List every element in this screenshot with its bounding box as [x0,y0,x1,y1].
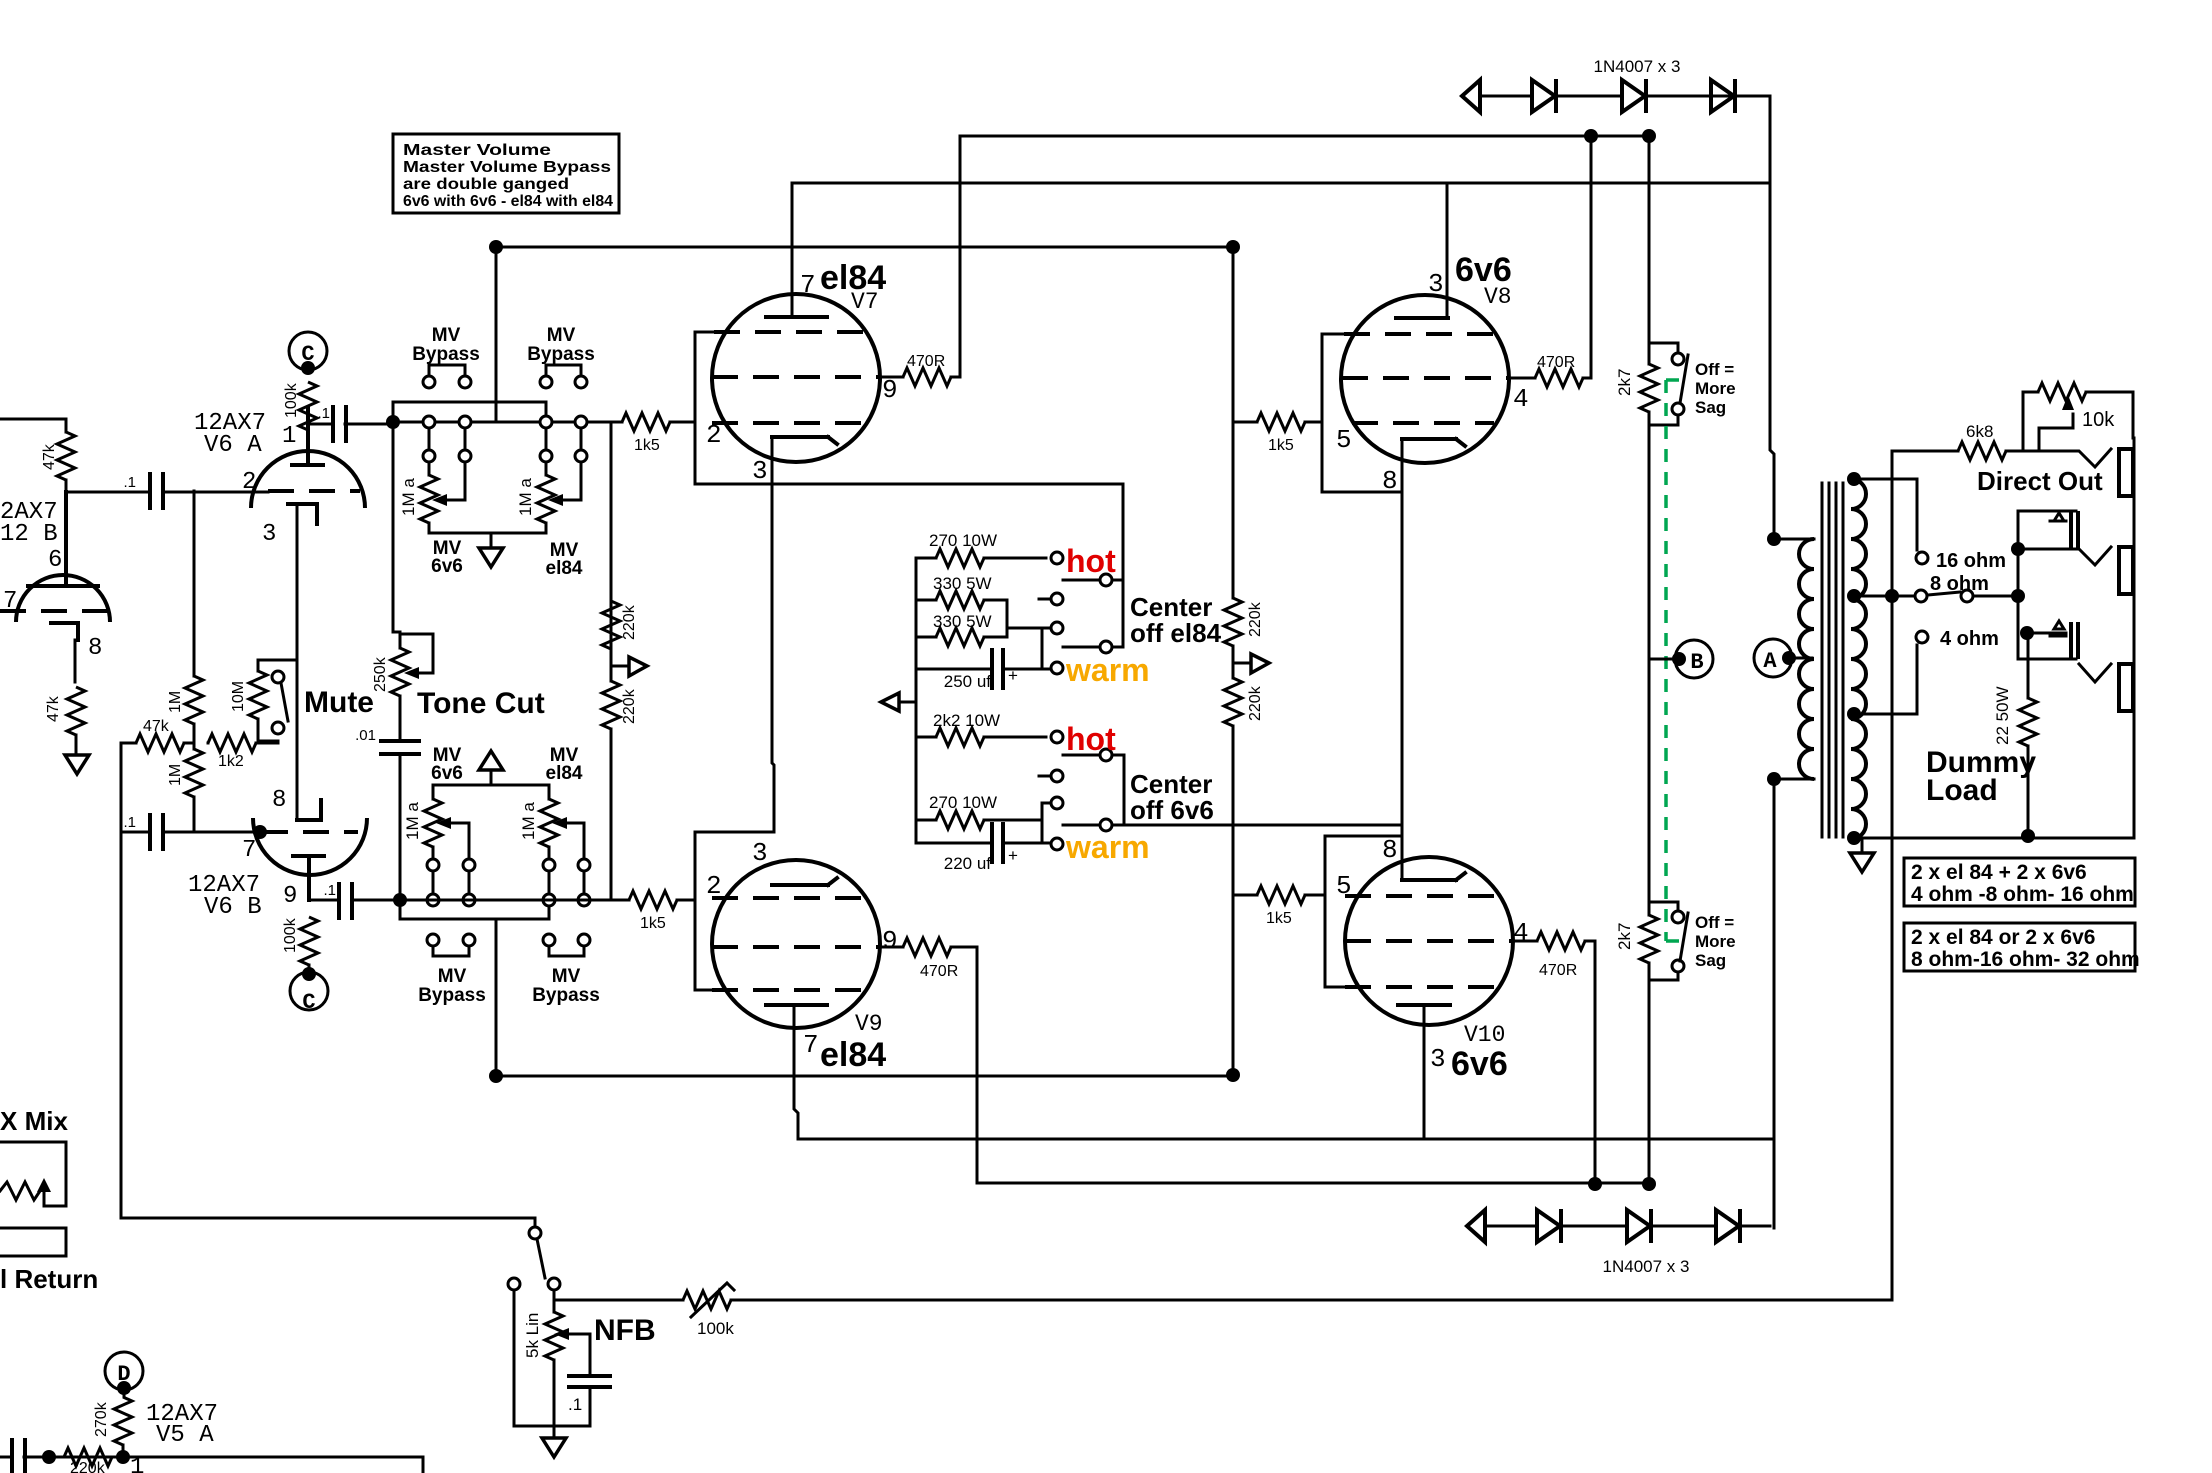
svg-text:7: 7 [242,837,256,864]
primary winding [1799,539,1814,779]
capacitor .01 (tone cut) [399,696,402,900]
wire cap to V6A grid [163,491,268,494]
svg-text:MV: MV [552,966,581,987]
switch Off=More Sag (upper) [1672,353,1684,365]
svg-text:47k: 47k [41,443,58,470]
V10 grid rows [1345,894,1498,898]
secondary bottom + ground [1847,831,1861,845]
resistor 270 10W (6v6 warm) [916,819,1042,822]
switch MV el84 contacts (lower) [543,859,555,871]
wire sag bus x1649 [1648,136,1651,343]
potentiometer 10k [2038,383,2086,401]
svg-text:5: 5 [1336,871,1352,901]
svg-text:470R: 470R [1539,962,1577,979]
ground arrow (left) [899,701,916,704]
switch NFB [529,1227,541,1239]
wire V7 cathode down to V9 [772,437,774,832]
svg-text:Bypass: Bypass [418,985,486,1006]
svg-text:100k: 100k [283,382,300,418]
svg-text:8: 8 [1382,835,1398,865]
resistor 47k (feedback mix) [121,742,194,745]
terminal B [1675,640,1713,678]
svg-text:4 ohm: 4 ohm [1940,628,1999,650]
svg-text:4 ohm -8 ohm- 16 ohm: 4 ohm -8 ohm- 16 ohm [1911,883,2134,906]
svg-text:1M: 1M [167,764,184,786]
svg-text:8: 8 [1382,466,1398,496]
wire sag lower vertical to bottom rail [1648,980,1651,1183]
wire plate rail y=1138 [798,1138,1774,1141]
resistor 220k pair (left, el84 bias) [611,422,629,900]
svg-text:are double ganged: are double ganged [403,176,569,193]
node dot y247/x496 [489,240,503,254]
resistor 10M (mute) [258,660,297,741]
svg-text:V9: V9 [855,1011,883,1037]
svg-text:1: 1 [282,423,296,450]
node dot V6A out [386,415,400,429]
potentiometer MV 6v6 1M a (lower) [433,785,469,859]
svg-text:.1: .1 [568,1395,582,1414]
svg-text:9: 9 [882,375,898,405]
svg-text:470R: 470R [907,353,945,370]
svg-text:1M a: 1M a [519,802,538,840]
node dot y247/x1233 [1226,240,1240,254]
potentiometer FX Mix (partial) [0,1142,66,1180]
svg-text:1M a: 1M a [403,802,422,840]
svg-text:MV: MV [438,966,467,987]
svg-text:Sag: Sag [1695,398,1726,417]
svg-text:2: 2 [706,871,722,901]
svg-text:warm: warm [1065,829,1150,865]
svg-text:.1: .1 [123,814,136,831]
wire x496 drop to bottom rail [495,919,498,1076]
wire V8 cathode down to V10 [1401,439,1404,880]
svg-text:16 ohm: 16 ohm [1936,550,2006,572]
speaker jack upper [2018,511,2076,659]
svg-text:220k: 220k [70,1460,106,1473]
resistor 270k [123,1388,126,1397]
green gang link (dashed) [1666,380,1680,941]
svg-text:Bypass: Bypass [532,985,600,1006]
wire 270 junction to switch [1042,803,1051,843]
diode string 1N4007 x 3 (bottom) [1467,1209,1770,1243]
secondary tap 8 ohm + switch [1847,589,1861,603]
node dot y136/x1649 [1642,129,1656,143]
wire MV row y=900 [400,899,629,902]
svg-text:V7: V7 [851,289,879,315]
svg-text:+: + [1008,666,1018,685]
secondary tap 4 ohm [1847,707,1861,721]
svg-text:330 5W: 330 5W [933,612,992,631]
svg-text:270 10W: 270 10W [929,531,997,550]
svg-text:Bypass: Bypass [527,344,595,365]
wire grid feed y=492 [66,491,148,494]
core [1822,483,1843,837]
svg-text:1k5: 1k5 [1266,910,1292,927]
V8 cathode [1402,439,1465,446]
V7 cathode [772,437,837,444]
ground (NFB) [553,1426,556,1438]
primary top lead [1774,538,1814,541]
svg-text:V8: V8 [1484,284,1512,310]
svg-text:8 ohm: 8 ohm [1930,573,1989,595]
resistor 1k5 (V8 grid) [1233,421,1322,424]
svg-text:2: 2 [242,469,256,496]
terminal C (top) [289,332,327,370]
wire B+ top rail y=136 [960,135,1649,138]
switch MV bypass jumpers (bottom right) [543,934,555,946]
info box 1 [1904,858,2135,906]
svg-text:1k5: 1k5 [634,437,660,454]
svg-text:5k Lin: 5k Lin [523,1313,542,1358]
svg-text:2 x el 84 + 2 x 6v6: 2 x el 84 + 2 x 6v6 [1911,861,2087,884]
svg-text:220k: 220k [621,688,638,724]
capacitor .1 (NFB) [569,1376,610,1387]
switch MV 6v6 contacts (upper) [423,416,435,428]
triode 12AX7 12 B (partial, left edge) [0,492,110,682]
wire MV bus y=785 [433,784,549,787]
svg-text:1M a: 1M a [516,478,535,516]
svg-text:8: 8 [272,787,286,814]
wire V6A cathode down to V6B [296,504,299,820]
wire x1233 drop to V8 1k5 [1232,247,1235,422]
secondary winding [1851,479,1866,839]
resistor 22 50W dummy load [2027,633,2030,836]
svg-text:hot: hot [1066,721,1116,757]
svg-text:B: B [1690,650,1703,675]
V7 grid rows [695,332,714,484]
svg-text:D: D [117,1362,130,1387]
potentiometer MV el84 1M a (lower) [549,785,584,859]
svg-text:A: A [1763,649,1777,674]
resistor 1M (V6A grid leak) [193,491,196,749]
wire screen rail y=1184 [977,1182,1649,1185]
node dot y136/x1591 [1584,129,1598,143]
svg-text:220 uf: 220 uf [944,854,992,873]
svg-text:C: C [302,990,315,1015]
switch center off el84 [1051,552,1063,564]
svg-text:220k: 220k [1247,685,1264,721]
wire grid return rail y=1075 [496,1075,1233,1078]
V7 plate [766,315,827,319]
svg-text:1k5: 1k5 [640,915,666,932]
svg-text:6k8: 6k8 [1966,422,1993,441]
svg-text:off 6v6: off 6v6 [1130,795,1214,825]
svg-text:10M: 10M [230,681,247,712]
svg-text:2 x el 84 or 2 x 6v6: 2 x el 84 or 2 x 6v6 [1911,926,2095,949]
svg-text:1N4007 x 3: 1N4007 x 3 [1594,57,1681,76]
svg-text:270k: 270k [93,1401,110,1437]
svg-text:22 50W: 22 50W [1993,686,2012,745]
resistor 1k5 (V9 grid) [590,899,695,902]
svg-text:Master Volume: Master Volume [403,142,551,159]
jack Direct Out [2023,449,2111,467]
svg-text:330 5W: 330 5W [933,574,992,593]
svg-text:3: 3 [1430,1044,1446,1074]
svg-text:V6 A: V6 A [204,432,262,459]
wire screen rail y=247 [496,246,1233,249]
svg-text:.1: .1 [123,474,136,491]
svg-text:Bypass: Bypass [412,344,480,365]
svg-text:Load: Load [1926,774,1998,807]
svg-text:4: 4 [1513,918,1529,948]
svg-text:12 B: 12 B [0,521,58,548]
svg-text:9: 9 [283,883,297,910]
wire MV row top y=422 [393,421,622,424]
potentiometer Tone Cut 250k [393,422,433,673]
svg-text:7: 7 [803,1030,819,1060]
terminal A [1754,639,1792,677]
svg-text:hot: hot [1066,543,1116,579]
resistor 1k5 (V10 grid) [1233,894,1325,897]
V9 box top [695,832,774,990]
svg-text:Mute: Mute [304,686,374,719]
svg-text:3: 3 [752,838,768,868]
svg-text:More: More [1695,379,1736,398]
ground (12B cathode) [65,755,89,774]
resistor 2k7 (upper) [1640,364,1658,412]
wire V8 470R to x1591 [1590,136,1593,378]
primary bottom lead [1774,778,1814,781]
svg-text:6v6 with 6v6 - el84 with el84: 6v6 with 6v6 - el84 with el84 [403,193,613,210]
switch MV 6v6 contacts (lower) [427,859,439,871]
svg-text:Tone Cut: Tone Cut [417,687,545,720]
resistor 47k (12B cathode) [67,687,85,735]
resistor 1k5 (V7 grid) [587,421,695,424]
svg-text:5: 5 [1336,425,1352,455]
svg-text:2k7: 2k7 [1615,923,1634,950]
svg-text:250 uf: 250 uf [944,672,992,691]
wire x121 down [120,743,123,1218]
svg-text:+: + [1008,846,1018,865]
switch MV bypass jumpers (top right) [546,365,581,376]
capacitor 250 uf [916,668,1051,671]
wire V7 470R to top rail [959,136,962,377]
svg-text:V6 B: V6 B [204,894,262,921]
switch MV bypass jumpers (top left) [429,365,465,376]
wire center-off 6v6 to 6v6 cathode line [1124,824,1402,827]
svg-text:100k: 100k [282,917,299,953]
wire 8ohm junction vertical [1891,451,1894,1300]
switch center off 6v6 [1051,731,1063,743]
jack FX return (partial) [0,1228,66,1256]
capacitor .1 (V5A in) [12,1440,25,1473]
wire MV bus y=919 [400,900,549,919]
V8 plate [1396,316,1448,320]
svg-text:el84: el84 [820,1036,886,1074]
svg-text:el84: el84 [546,763,583,784]
svg-text:250k: 250k [372,656,389,692]
svg-text:470R: 470R [1537,354,1575,371]
wire x496 drop to MV row [495,247,498,422]
svg-text:3: 3 [262,521,276,548]
V9 plate [766,1003,827,1007]
svg-text:1k5: 1k5 [1268,437,1294,454]
svg-text:6v6: 6v6 [431,556,463,577]
V9 cathode [772,878,837,885]
wire sag mid vertical [1648,425,1651,902]
wire 47k leads [65,419,68,492]
wire NFB node [554,1290,683,1300]
V10 plate [1398,1003,1450,1007]
wire 330 junction to switch [1007,628,1051,669]
resistor 2k7 (lower) [1640,915,1658,963]
V10 box [1325,836,1402,987]
svg-text:2k7: 2k7 [1615,369,1634,396]
svg-text:l Return: l Return [0,1264,98,1294]
svg-text:220k: 220k [621,604,638,640]
svg-text:6v6: 6v6 [1451,1045,1508,1083]
switch Mute [272,671,284,683]
wire from x121 to NFB switch [121,1218,535,1227]
svg-text:3: 3 [1428,269,1444,299]
svg-text:10k: 10k [2082,409,2115,431]
svg-text:2k2 10W: 2k2 10W [933,711,1000,730]
resistor 470R (V7) [903,368,951,386]
ground (lower MV, pointing up) [479,751,503,770]
svg-text:47k: 47k [143,718,170,735]
svg-text:Off =: Off = [1695,360,1734,379]
resistor 1M (lower) [185,749,203,797]
switch Off=More Sag (lower) [1672,911,1684,923]
svg-text:.1: .1 [317,405,330,422]
V8 grid rows [1344,332,1494,336]
wire top-left input y=419 [0,418,66,421]
triode 12AX7 V6 A [251,408,365,524]
svg-text:NFB: NFB [594,1314,656,1347]
node dot V6B out [393,893,407,907]
capacitor .1 (V6B plate out) [309,899,400,902]
triode 12AX7 V6 B (inverted dome) [253,800,367,900]
resistor 100k (V6B to C) [300,917,318,965]
right bus [2133,438,2136,838]
svg-text:7: 7 [800,270,816,300]
ground (upper MV) [490,533,493,548]
svg-text:el84: el84 [546,558,583,579]
svg-text:6: 6 [48,547,62,574]
svg-text:Sag: Sag [1695,951,1726,970]
node 8ohm to jacks [2011,589,2025,603]
svg-text:MV: MV [432,325,461,346]
svg-text:Direct Out: Direct Out [1977,466,2103,496]
capacitor .1 (into V6B grid) [121,831,148,834]
resistor 330 5W (2) [916,600,1007,637]
svg-text:C: C [301,342,314,367]
svg-text:7: 7 [3,588,17,615]
resistor 470R (V9) [903,938,951,956]
svg-text:8 ohm-16 ohm- 32 ohm: 8 ohm-16 ohm- 32 ohm [1911,948,2140,971]
potentiometer MV 6v6 1M a (upper) [429,462,546,533]
svg-text:6v6: 6v6 [431,763,463,784]
svg-text:8: 8 [88,635,102,662]
resistor 470R (V8) [1535,369,1583,387]
Master Volume note box [393,134,619,213]
resistor 2k2 10W (6v6 hot) [916,736,1046,739]
svg-text:1M: 1M [167,691,184,713]
wire V10 470R down [1585,941,1595,1183]
svg-text:3: 3 [752,456,768,486]
svg-text:off el84: off el84 [1130,618,1222,648]
capacitor .1 (into V6A grid) [150,474,163,508]
potentiometer MV el84 1M a (upper) [546,462,581,533]
wire cathode rail y=484 [695,483,1123,486]
svg-text:.01: .01 [355,727,376,744]
svg-text:1: 1 [130,1454,144,1473]
wire V7 pin7 drop [791,183,794,317]
svg-text:4: 4 [1513,384,1529,414]
diode string 1N4007 x 3 (top) [1462,79,1768,113]
V10 cathode [1402,873,1465,880]
wire V8 pin3 drop [1446,183,1449,318]
svg-text:470R: 470R [920,963,958,980]
wire MV bus y=402 [393,402,546,422]
resistor 330 5W (1) [916,599,1007,602]
svg-text:.1: .1 [323,882,336,899]
switch MV bypass jumpers (bottom left) [427,934,439,946]
wire diode string right drop x1770 [1770,96,1774,539]
svg-text:47k: 47k [45,695,62,722]
potentiometer 5k Lin [554,1300,590,1426]
switch MV el84 contacts (upper) [540,416,552,428]
svg-text:270 10W: 270 10W [929,793,997,812]
wire V9 470R down [951,947,1060,1183]
secondary tap 16 ohm [1847,472,1861,486]
svg-text:Master Volume Bypass: Master Volume Bypass [403,159,611,176]
wire bottom left rail [0,1457,423,1473]
svg-text:Off =: Off = [1695,913,1734,932]
resistor 100k (V6A plate load) [299,382,317,430]
svg-text:MV: MV [547,325,576,346]
terminal C (bottom) [290,972,328,1010]
capacitor 220 uf [916,842,1051,845]
wire V9 plate down [794,1005,798,1139]
terminal D [105,1352,143,1390]
svg-text:1k2: 1k2 [218,753,244,770]
wire V10 plate down [1423,1005,1426,1139]
svg-text:9: 9 [882,926,898,956]
svg-text:1N4007 x 3: 1N4007 x 3 [1603,1257,1690,1276]
bus vertical [915,558,918,843]
svg-text:2: 2 [706,420,722,450]
resistor 470R (V10) [1537,932,1585,950]
info box 2 [1904,923,2135,971]
speaker jack lower [2020,626,2034,640]
svg-text:220k: 220k [1247,601,1264,637]
wire primary bottom drop [1773,779,1776,1228]
resistor 6k8 [1892,392,2038,451]
svg-text:100k: 100k [697,1319,734,1338]
V8 box [1322,334,1402,492]
resistor 270 10W (el84 hot) [916,557,1046,560]
svg-text:1M a: 1M a [399,478,418,516]
wire sag bus upper [1649,343,1678,425]
resistor 47k (V12B plate load) [57,432,75,480]
node dot V6B grid [253,825,267,839]
capacitor .1 (V6A plate out) [308,423,393,426]
resistor 220k pair (right, 6v6 bias) [1233,422,1251,1075]
potentiometer 100k (NFB feed) [683,1291,731,1309]
svg-text:warm: warm [1065,652,1150,688]
resistor 220k (V5A grid) [42,1450,56,1464]
resistor 1k2 [208,742,278,745]
svg-text:More: More [1695,932,1736,951]
svg-text:V5 A: V5 A [156,1422,214,1449]
svg-text:X Mix: X Mix [0,1106,68,1136]
V9 grid rows [712,896,866,900]
wire plate rail y=183 [792,182,1770,185]
